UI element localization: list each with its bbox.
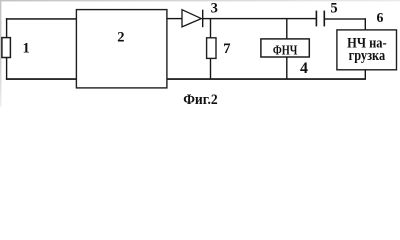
wire box 2 to diode anode — [167, 18, 182, 19]
wire junction down to resistor R7 — [210, 19, 211, 39]
wire bottom-left horizontal to box 2 — [6, 78, 77, 80]
svg-text:6: 6 — [377, 10, 384, 25]
capacitor C (5): left plate — [316, 11, 318, 27]
scan frame top border — [0, 0, 400, 1]
resistor R1 — [2, 38, 11, 58]
svg-text:2: 2 — [117, 29, 124, 45]
wire left vertical from resistor R1 down to bottom rail — [6, 58, 7, 80]
svg-text:грузка: грузка — [349, 48, 386, 64]
wire corner down into load box 6 — [365, 18, 366, 30]
svg-text:5: 5 — [330, 1, 337, 17]
scan frame left border — [0, 0, 1, 107]
block 2 (box) — [76, 10, 166, 88]
svg-text:7: 7 — [223, 41, 230, 57]
LPF box (ФНЧ, block 4) — [261, 39, 309, 57]
wire capacitor to corner above load box — [325, 18, 366, 19]
wire bottom rail (box 2 to load box stub) — [167, 78, 366, 80]
wire diode cathode to capacitor plate — [202, 18, 316, 19]
svg-text:4: 4 — [300, 60, 308, 77]
svg-text:3: 3 — [211, 1, 218, 17]
svg-text:ФНЧ: ФНЧ — [273, 43, 298, 58]
wire LPF box down to bottom rail — [286, 57, 287, 79]
svg-text:1: 1 — [23, 40, 30, 56]
diode cathode bar — [202, 10, 203, 28]
wire load box 6 down to bottom rail — [365, 70, 366, 79]
capacitor C (5): right plate — [324, 11, 326, 27]
resistor R7 — [207, 38, 216, 59]
diode VD (3): triangle — [182, 10, 201, 27]
LF load box (НЧ нагрузка, block 6) — [337, 30, 397, 70]
wire junction down into LPF box 4 — [286, 19, 287, 39]
svg-text:Фиг.2: Фиг.2 — [183, 92, 218, 107]
wire top-left horizontal (node between R1 and box 2) — [6, 18, 77, 20]
wire left vertical from top wire down to resistor R1 — [6, 18, 7, 38]
wire resistor R7 down to bottom rail — [210, 58, 211, 79]
